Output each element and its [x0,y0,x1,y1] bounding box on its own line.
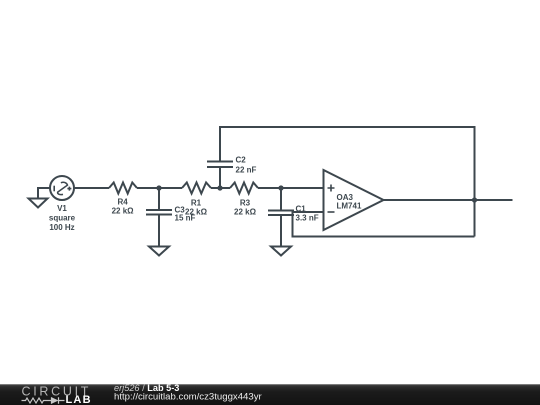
svg-text:100 Hz: 100 Hz [49,223,74,232]
capacitor C1 [268,211,294,216]
svg-text:15 nF: 15 nF [175,214,196,223]
wire: C2 up and feedback top [220,127,475,237]
svg-text:22 kΩ: 22 kΩ [112,207,135,216]
wire: V1 output to R4 [74,187,109,189]
svg-text:http://circuitlab.com/cz3tuggx: http://circuitlab.com/cz3tuggx443yr [114,392,263,403]
logo squiggle: wire resistor diode [22,397,65,404]
svg-text:3.3 nF: 3.3 nF [296,214,319,223]
logo diode triangle [52,397,59,404]
op-amp OA3 triangle [324,170,384,230]
svg-text:LAB: LAB [66,394,92,405]
wire: R4 to node A [137,187,182,189]
V1 plus sign [67,187,71,191]
svg-text:R4: R4 [117,198,128,207]
svg-text:R1: R1 [191,198,202,207]
wire: R1 to R3 [211,187,230,189]
wire: op-amp - input feedback [293,212,475,237]
V1 square wave glyph [58,182,68,194]
voltage source V1 circle [50,176,74,200]
ground (V1) [29,199,48,208]
node B junction dot [217,185,222,190]
output node junction dot [472,197,477,202]
capacitor C3 [146,210,172,215]
footer credit line [114,383,263,403]
wire: C1 to ground [280,215,282,247]
wire: node B up to C2 [219,167,221,188]
svg-text:R3: R3 [240,198,251,207]
svg-text:square: square [49,214,76,223]
resistor R4 [109,183,137,194]
svg-text:LM741: LM741 [337,201,362,210]
capacitor C2 [207,162,233,168]
op-amp minus pin sign [328,211,335,213]
svg-text:22 nF: 22 nF [236,166,257,175]
svg-text:C1: C1 [296,205,307,214]
svg-text:V1: V1 [57,204,67,213]
wire: op-amp output [384,199,513,201]
node A junction dot [156,185,161,190]
V1 minus terminal bar [53,186,55,192]
wire: V1 negative to ground [38,188,50,199]
resistor R1 [182,183,211,194]
CircuitLab logo wordmark [22,385,92,405]
svg-text:C2: C2 [236,156,247,165]
ground (C1) [271,247,291,256]
node C junction dot [278,185,283,190]
resistor R3 [230,183,258,194]
svg-text:22 kΩ: 22 kΩ [234,207,257,216]
wire: R3 to op-amp + input [258,187,324,189]
wire: node C down to C1 [280,188,282,211]
wire: node A down to C3 [158,188,160,210]
op-amp plus pin sign [328,185,335,192]
ground (C3) [149,247,169,256]
wire: C3 to ground [158,215,160,247]
